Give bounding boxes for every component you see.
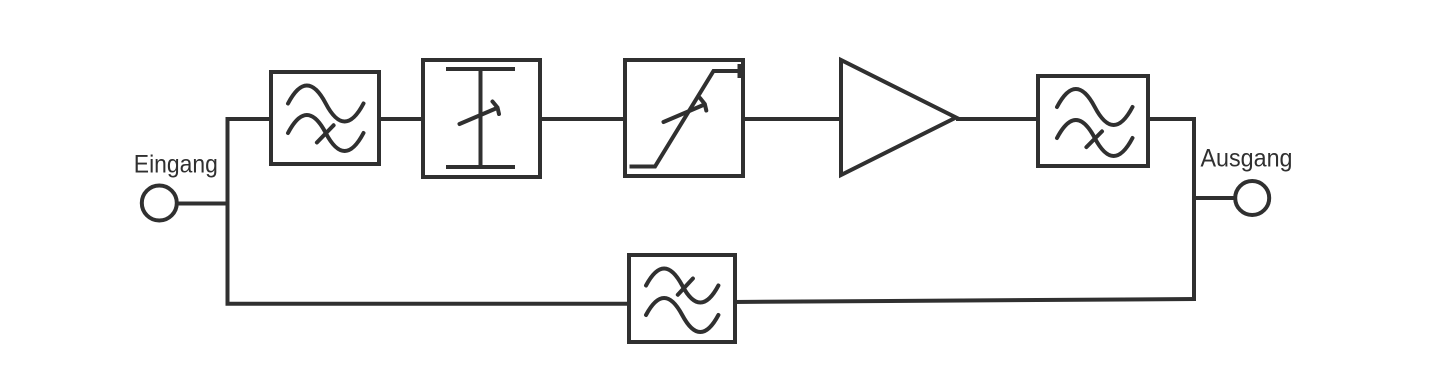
- feedback filter F3 box: [629, 255, 735, 342]
- wire limiter to amplifier: [741, 117, 843, 121]
- limiter adjust arrow shaft: [664, 105, 705, 123]
- output terminal circle: [1235, 181, 1269, 215]
- wire left bus to filter F1: [226, 117, 272, 121]
- svg-text:Ausgang: Ausgang: [1201, 144, 1293, 172]
- filter F1 box: [271, 72, 379, 164]
- limiter transfer curve: [630, 71, 741, 167]
- attenuator vertical stem: [479, 69, 483, 167]
- filter F2 wave top: [1057, 89, 1133, 125]
- wire F2 to right bus: [1146, 117, 1196, 121]
- attenuator adjust arrow shaft: [460, 108, 498, 124]
- wire right bus to output: [1194, 196, 1235, 200]
- filter F3 wave bottom: [646, 298, 718, 332]
- attenuator bottom bar: [446, 165, 515, 169]
- amplifier triangle: [841, 60, 956, 175]
- filter F1 wave bottom: [288, 115, 364, 151]
- filter F3 wave top: [646, 268, 718, 302]
- limiter box: [625, 60, 743, 176]
- wire bottom left segment: [226, 302, 632, 306]
- attenuator adjust arrowhead: [493, 102, 500, 115]
- input terminal circle: [142, 186, 177, 221]
- filter F1 wave top: [288, 86, 364, 122]
- wire attenuator to limiter: [538, 117, 627, 121]
- wire left bus vertical: [226, 117, 230, 306]
- wire bottom right segment: [733, 299, 1196, 302]
- wire input to left bus: [178, 202, 228, 206]
- filter F2 box: [1038, 76, 1148, 166]
- filter F2 slash on bottom wave: [1086, 131, 1102, 147]
- attenuator box: [423, 60, 540, 177]
- limiter adjust arrowhead: [700, 98, 706, 111]
- filter F2 wave bottom: [1057, 120, 1133, 156]
- attenuator top bar: [446, 67, 515, 71]
- filter F3 slash on top wave: [678, 279, 693, 295]
- svg-text:Eingang: Eingang: [134, 151, 218, 179]
- wire right bus vertical: [1192, 117, 1196, 301]
- filter F1 slash on bottom wave: [317, 125, 334, 142]
- wire amplifier to filter F2: [956, 117, 1040, 121]
- wire F1 to attenuator: [379, 117, 423, 121]
- limiter curve end tick: [738, 64, 742, 78]
